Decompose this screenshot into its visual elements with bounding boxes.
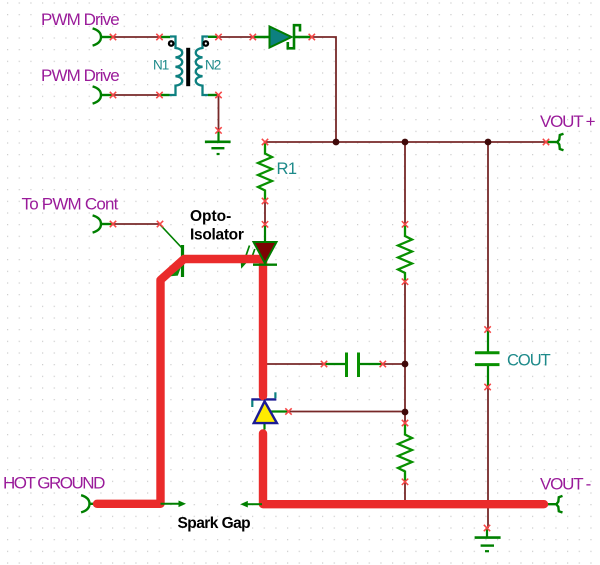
stub VOUT- — [547, 503, 556, 505]
port HOT GROUND — [81, 495, 89, 512]
LED cathode bar — [253, 264, 277, 266]
resistor divider upper — [398, 225, 412, 282]
LED of opto triangle — [254, 242, 277, 263]
capacitor feedback plates — [347, 353, 359, 378]
TL431 triangle — [254, 401, 277, 423]
transformer polarity dot N1 — [168, 40, 175, 47]
junction dot ref node — [402, 409, 409, 416]
port PWM Drive 1 — [93, 28, 101, 45]
wire diode to VOUT+ rail corner — [312, 37, 336, 142]
port To PWM Cont — [93, 215, 101, 232]
opto transistor collector lead — [160, 225, 182, 248]
ground bottom (COUT) — [475, 538, 501, 552]
port stub PWM2 — [101, 94, 113, 96]
stub TL431 anode — [263, 423, 265, 430]
opto transistor emitter with arrow — [167, 256, 183, 275]
wire LED cathode node to capacitor — [264, 363, 324, 365]
opto light arrow 2 — [252, 249, 255, 258]
transformer N2 winding — [196, 37, 208, 96]
stub ground bottom — [486, 529, 488, 538]
resistor R1 — [258, 143, 272, 202]
transformer N1 winding — [170, 37, 183, 96]
svg-text:To PWM Cont: To PWM Cont — [22, 194, 119, 213]
wire PWM1 to N1 top — [113, 36, 160, 38]
highlighted red path: hot ground - emitter - collector wire - LED node — [97, 259, 263, 504]
svg-text:N1: N1 — [153, 58, 169, 73]
spark gap arrow right — [161, 503, 180, 505]
stub COUT top lead — [487, 330, 489, 352]
junction dot rail x488 — [485, 139, 492, 146]
port stub PWM1 — [101, 36, 113, 38]
transformer core — [186, 48, 190, 86]
junction dot rail x405 — [402, 139, 409, 146]
svg-text:Isolator: Isolator — [190, 227, 244, 244]
wire N2 top to diode — [219, 36, 253, 38]
svg-text:Opto-: Opto- — [190, 208, 231, 225]
wire R1 bottom to LED — [264, 201, 266, 224]
stub cap right lead — [359, 363, 383, 365]
svg-text:Spark Gap: Spark Gap — [178, 515, 251, 532]
junction dot cap node — [402, 361, 409, 368]
wire divider middle — [404, 282, 406, 423]
stub N1 bottom — [160, 94, 170, 96]
port VOUT- — [556, 496, 562, 513]
TL431 cathode bar hooks — [251, 401, 253, 408]
ground top (transformer) — [205, 142, 231, 154]
stub ground top — [217, 131, 219, 142]
highlighted red path: TL431 anode to VOUT- rail — [263, 434, 544, 505]
opto transistor base bar — [181, 245, 184, 277]
diode D1 schottky cathode bar — [288, 25, 300, 48]
svg-text:N2: N2 — [205, 58, 221, 73]
stub LED anode lead — [264, 225, 266, 242]
wire divider resistor2 to VOUT- rail — [404, 482, 406, 505]
svg-text:PWM Drive: PWM Drive — [41, 10, 119, 29]
wire COUT to ground — [487, 387, 489, 528]
transformer polarity dot N2 — [202, 40, 209, 47]
diode D1 schottky triangle — [270, 27, 292, 48]
port PWM Drive 2 — [93, 86, 101, 103]
wire N2 bottom to ground — [218, 95, 220, 130]
wire rail to divider resistor top — [404, 142, 406, 224]
stub N1 top — [160, 36, 171, 38]
stub cap left lead — [325, 363, 346, 365]
port VOUT+ — [557, 134, 563, 151]
stub TL431 ref — [271, 410, 289, 412]
wire PWM2 to N1 bottom — [113, 94, 160, 96]
stub HOT GROUND — [89, 503, 97, 505]
svg-text:VOUT +: VOUT + — [540, 112, 596, 131]
svg-text:HOT GROUND: HOT GROUND — [3, 473, 105, 492]
wire capacitor to divider node — [383, 363, 405, 365]
resistor divider lower — [398, 424, 412, 482]
wire VOUT+ rail — [265, 141, 546, 143]
svg-text:VOUT -: VOUT - — [540, 475, 591, 494]
wire rail to COUT — [487, 142, 489, 330]
stub VOUT+ — [546, 141, 557, 143]
svg-text:R1: R1 — [277, 160, 297, 178]
wire To-PWM-Cont to opto collector — [113, 223, 160, 225]
X pin markers — [110, 34, 549, 531]
junction dot rail x336 — [333, 139, 340, 146]
wire TL431 ref to divider node — [289, 411, 406, 413]
port stub To PWM Cont — [101, 223, 113, 225]
svg-text:COUT: COUT — [507, 351, 551, 369]
stub COUT bottom lead — [487, 365, 489, 387]
svg-text:PWM Drive: PWM Drive — [41, 66, 119, 85]
stub N2 bottom — [208, 94, 218, 96]
spark gap arrow left — [247, 503, 262, 505]
opto emitter arrowhead visible part — [171, 267, 182, 276]
TL431 cathode bar — [251, 398, 276, 400]
diode D1 leads — [253, 36, 312, 38]
capacitor COUT plates — [475, 353, 500, 365]
opto light arrow 1 — [244, 246, 250, 263]
stub N2 top — [208, 36, 218, 38]
